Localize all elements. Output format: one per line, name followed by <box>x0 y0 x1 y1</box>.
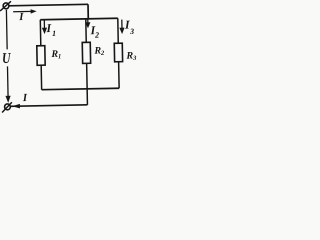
label R1 <box>50 49 61 61</box>
svg-text:U: U <box>2 49 12 66</box>
label I1 <box>45 21 56 38</box>
wire (top conductor from input terminal to feed corner) <box>9 4 88 6</box>
svg-text:3: 3 <box>132 55 137 62</box>
terminal (bottom-left output) <box>2 102 12 112</box>
svg-text:2: 2 <box>100 50 105 57</box>
wire (R2 bottom lead through junction to return) <box>86 63 89 104</box>
label R3 <box>125 50 137 62</box>
current arrow I2 <box>85 19 90 28</box>
svg-text:1: 1 <box>58 53 61 60</box>
label R2 <box>93 45 105 57</box>
wire (return conductor to output terminal) <box>10 105 87 106</box>
svg-text:I: I <box>22 92 28 104</box>
svg-text:2: 2 <box>94 31 99 40</box>
current arrow I3 <box>119 20 124 35</box>
wire (branch 2: bus to R2) <box>85 19 87 42</box>
wire (branch 3: bus to R3) <box>117 18 119 43</box>
resistor R2 <box>82 42 90 63</box>
terminal (top-left input) <box>0 1 11 11</box>
svg-text:3: 3 <box>129 27 134 36</box>
current arrow I1 <box>42 20 47 34</box>
current arrow I (bottom return) <box>12 104 20 109</box>
current arrow I (top) <box>13 9 37 14</box>
svg-text:1: 1 <box>52 29 56 38</box>
label I2 <box>89 23 99 40</box>
voltage arrow U (between terminals) <box>4 10 11 103</box>
wire (distribution bus) <box>40 18 117 19</box>
wire (R3 bottom lead to bottom bus) <box>118 62 121 88</box>
label I3 <box>124 17 134 36</box>
wire (R1 bottom lead to bottom bus) <box>40 65 42 89</box>
resistor R1 <box>37 46 45 66</box>
wire (vertical feed from top conductor down to distribution bus) <box>87 4 89 18</box>
wire (bottom bus joining branch bottoms) <box>42 88 119 89</box>
wire (branch 1: bus to R1) <box>39 20 41 46</box>
svg-text:I: I <box>18 11 24 23</box>
resistor R3 <box>114 43 122 62</box>
